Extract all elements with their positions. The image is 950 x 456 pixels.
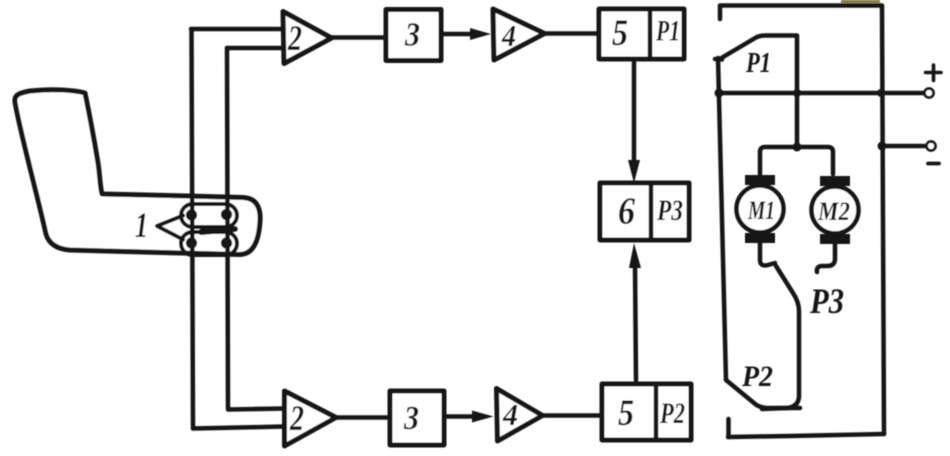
- box 3 (top): [386, 10, 441, 61]
- svg-text:P3: P3: [656, 194, 683, 227]
- svg-text:1: 1: [135, 205, 148, 245]
- junction dots: [715, 89, 887, 152]
- wire top outer horizontal: [191, 27, 283, 32]
- motor M2: [812, 187, 859, 234]
- wire amp2 to box3 (top): [331, 35, 386, 40]
- box 3 (bottom): [390, 391, 444, 445]
- electrode pair top oval: [181, 204, 237, 227]
- svg-text:2: 2: [289, 398, 304, 438]
- box 5 with relay P1 (top): [599, 9, 684, 59]
- svg-text:M2: M2: [817, 197, 850, 226]
- amplifier 4 (bottom): [497, 389, 543, 442]
- M2 bottom hook contact: [817, 244, 835, 272]
- commutator left top stub: [718, 6, 723, 19]
- minus sign: [928, 162, 939, 166]
- svg-text:P1: P1: [745, 47, 771, 79]
- amplifier 2 (bottom): [285, 391, 337, 446]
- wire amp4 to box5 (bottom): [542, 413, 601, 418]
- minus terminal: [927, 142, 936, 151]
- svg-text:P2: P2: [659, 397, 685, 430]
- svg-text:P2: P2: [741, 360, 773, 393]
- pointer arrow for label 1: [157, 216, 183, 240]
- commutator top edge: [720, 3, 882, 8]
- wire box3 to amp4 with arrowhead (top): [441, 32, 482, 37]
- plus sign: [926, 65, 942, 81]
- svg-text:4: 4: [501, 18, 516, 53]
- svg-text:5: 5: [618, 393, 634, 434]
- amplifier 2 (top): [283, 12, 332, 64]
- wire bottom outer horizontal: [193, 427, 284, 429]
- relay contact P1 blade: [715, 36, 797, 149]
- plus supply line: [719, 91, 923, 96]
- svg-text:P1: P1: [655, 15, 680, 48]
- box 6 with relay P3: [600, 183, 689, 240]
- relay contact P2 blade: [726, 380, 800, 408]
- motor feed wire: [760, 147, 833, 174]
- minus supply line: [882, 144, 924, 149]
- electrode pair bottom oval: [181, 232, 237, 255]
- motor M1: [737, 186, 784, 233]
- wire amp2 to box3 (bottom): [336, 415, 389, 420]
- svg-text:M1: M1: [747, 196, 775, 225]
- svg-text:P3: P3: [809, 281, 844, 321]
- wire right vertical: [227, 48, 228, 408]
- electrode link bar: [201, 229, 235, 232]
- commutator left rail: [718, 58, 726, 380]
- wire bottom inner horizontal: [228, 409, 284, 410]
- amplifier 4 (top): [493, 9, 545, 60]
- wire amp4 to box5 (top): [544, 31, 597, 36]
- svg-text:3: 3: [404, 17, 420, 54]
- wire box5 down to box6 with arrowhead: [632, 61, 637, 162]
- box 5 with relay P2 (bottom): [602, 384, 691, 440]
- wire top inner horizontal: [227, 46, 283, 51]
- svg-text:4: 4: [502, 397, 518, 432]
- arm outline: [15, 90, 260, 255]
- svg-text:2: 2: [287, 18, 302, 58]
- svg-text:5: 5: [612, 13, 628, 54]
- electrode contact dots: [186, 209, 232, 249]
- plus terminal: [925, 89, 934, 98]
- svg-text:3: 3: [403, 400, 419, 437]
- wire left vertical (top electrode to amp 2 top, down to amp 2 bottom): [192, 29, 194, 428]
- commutator bottom left stub: [726, 419, 731, 437]
- relay contact P3 blade from M1: [760, 243, 799, 409]
- commutator bottom edge: [728, 434, 884, 437]
- wire box3 to amp4 with arrowhead (bottom): [446, 414, 484, 419]
- svg-text:6: 6: [618, 191, 635, 233]
- wire bottom box5 up to box6 with arrowhead: [635, 266, 636, 380]
- commutator right rail: [882, 6, 884, 434]
